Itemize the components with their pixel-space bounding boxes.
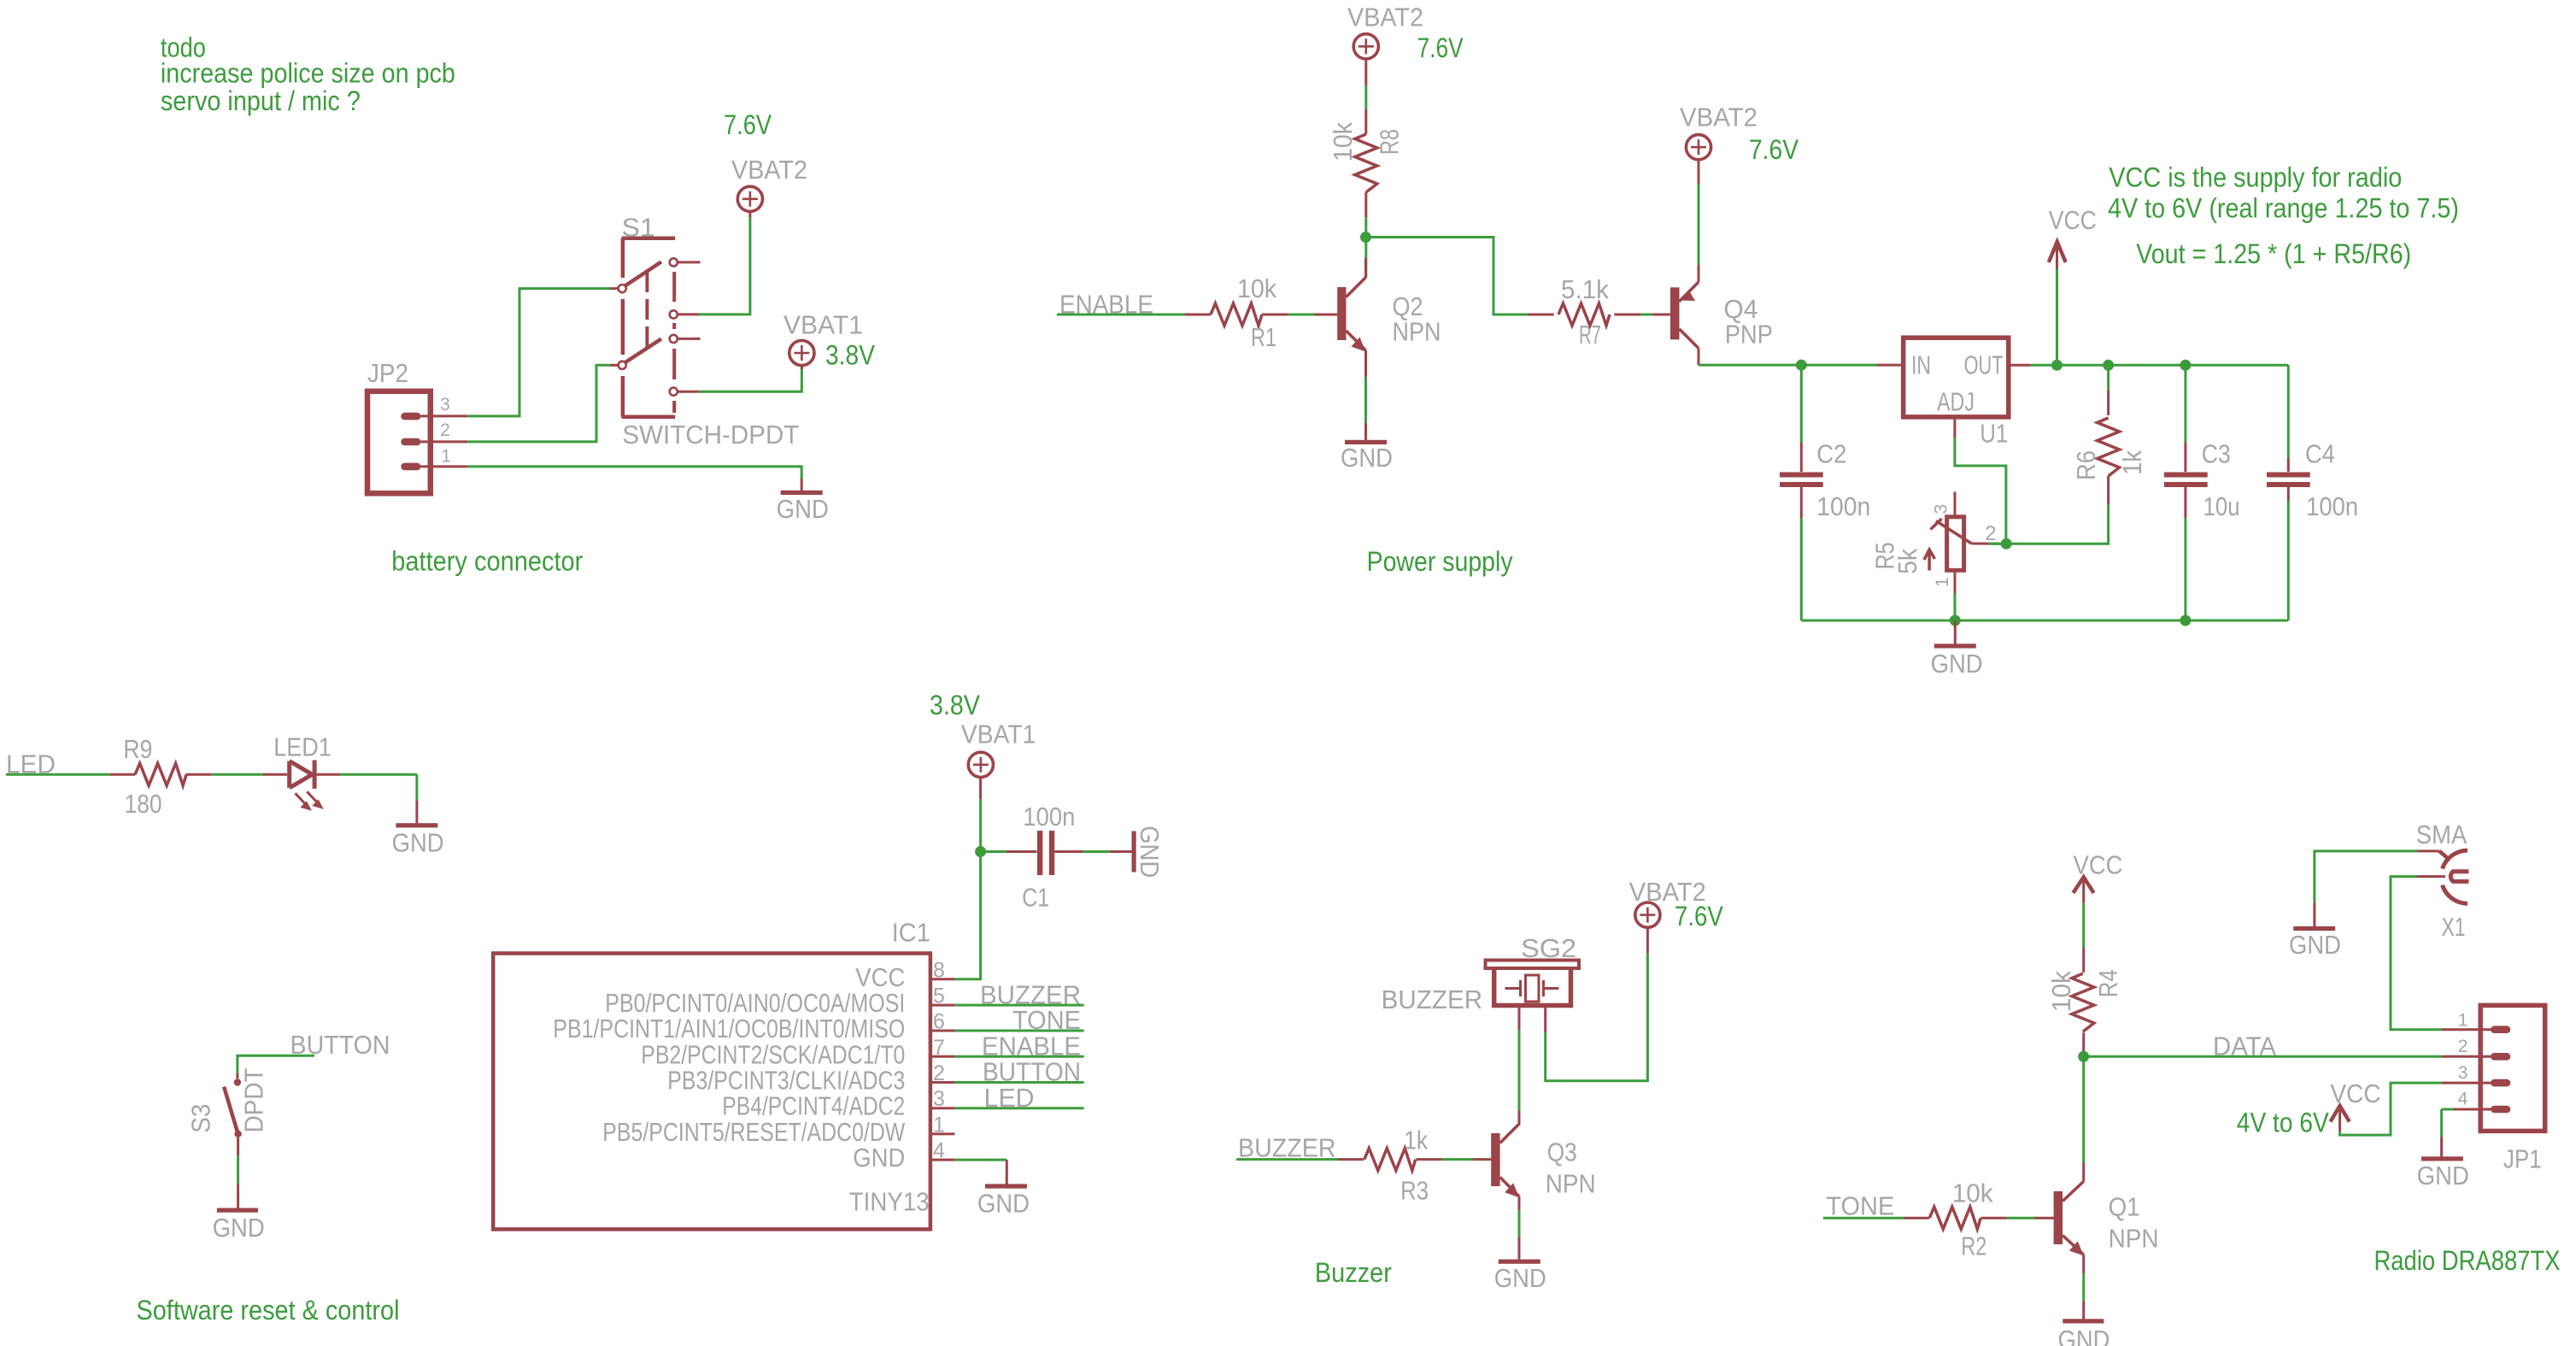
wire U1 ADJ to divider node xyxy=(1953,417,1956,438)
potentiometer R5 5k xyxy=(1947,517,1964,571)
svg-text:VBAT2: VBAT2 xyxy=(731,155,807,185)
ic IC1 body xyxy=(493,954,930,1230)
transistor Q4 PNP xyxy=(1670,287,1680,339)
wire R7 to Q4 base xyxy=(1640,314,1652,316)
capacitor C4 100n xyxy=(2287,365,2290,458)
wire node to VBAT1 xyxy=(979,799,982,851)
svg-text:VBAT2: VBAT2 xyxy=(1680,103,1757,132)
wire DATA node to Q1 collector xyxy=(2082,1056,2085,1162)
svg-text:3: 3 xyxy=(440,395,450,414)
resistor R6 1k xyxy=(2107,365,2110,391)
svg-text:Q3: Q3 xyxy=(1547,1137,1577,1167)
wire LED1 to GND xyxy=(340,773,417,776)
power symbol VBAT1 at IC1 xyxy=(968,752,993,777)
power symbol VBAT1 battery section xyxy=(789,340,814,365)
transistor Q2 NPN xyxy=(1337,287,1346,340)
buzzer SG2 body xyxy=(1486,961,1580,969)
wire LED net to R9 xyxy=(6,773,109,776)
switch S1 pole stubs xyxy=(610,287,619,290)
wire Q1 emitter to GND xyxy=(2082,1255,2085,1273)
ground symbol IC1 GND xyxy=(985,1184,1027,1188)
svg-text:100n: 100n xyxy=(1816,491,1870,521)
wire ENABLE to R1 xyxy=(1057,314,1185,316)
svg-text:NPN: NPN xyxy=(1546,1168,1596,1198)
ground symbol JP1 GND xyxy=(2421,1156,2463,1161)
switch S3 lever xyxy=(224,1087,238,1134)
wire Q3 emitter to GND xyxy=(1518,1196,1521,1210)
svg-text:battery connector: battery connector xyxy=(391,546,583,577)
switch S1 coupling dashed line xyxy=(645,272,648,350)
junction ADJ divider node xyxy=(2001,538,2012,550)
connector JP1 pads xyxy=(2491,1026,2510,1033)
svg-text:R9: R9 xyxy=(123,734,152,764)
svg-text:VCC: VCC xyxy=(2074,850,2123,880)
resistor R2 10k xyxy=(1904,1217,1929,1220)
svg-text:Buzzer: Buzzer xyxy=(1315,1257,1392,1288)
svg-text:C1: C1 xyxy=(1022,883,1049,913)
svg-text:C4: C4 xyxy=(2305,438,2335,468)
svg-text:S3: S3 xyxy=(186,1104,216,1133)
resistor R1 10k xyxy=(1185,314,1211,316)
wire DATA to JP1 pin2 xyxy=(2084,1055,2442,1058)
svg-text:7.6V: 7.6V xyxy=(1749,134,1799,165)
svg-text:7.6V: 7.6V xyxy=(1675,901,1724,932)
svg-text:5.1k: 5.1k xyxy=(1561,274,1609,304)
buzzer SG2 piezo element xyxy=(1526,975,1540,1002)
svg-text:JP2: JP2 xyxy=(367,358,408,388)
switch S1 pole contact 1 xyxy=(619,285,626,292)
svg-text:Vout = 1.25 * (1 + R5/R6): Vout = 1.25 * (1 + R5/R6) xyxy=(2136,238,2411,269)
svg-text:IC1: IC1 xyxy=(892,918,930,948)
svg-text:GND: GND xyxy=(1135,826,1165,878)
wire R8 to Q2 collector node xyxy=(1364,217,1367,278)
svg-text:GND: GND xyxy=(977,1189,1030,1219)
power symbol VBAT2 at buzzer xyxy=(1635,902,1660,927)
svg-text:1: 1 xyxy=(1933,577,1952,587)
svg-text:GND: GND xyxy=(2289,930,2341,960)
svg-text:R6: R6 xyxy=(2071,450,2101,480)
wire IC1 pin2 BUTTON xyxy=(955,1081,1084,1084)
svg-text:JP1: JP1 xyxy=(2503,1143,2542,1173)
wire IC1 pin6 TONE xyxy=(955,1030,1084,1032)
svg-text:10k: 10k xyxy=(1952,1178,1993,1208)
wire R3 to Q3 base xyxy=(1442,1158,1474,1161)
wire JP2 pin1 to GND xyxy=(467,467,801,479)
power symbol VBAT2 power supply xyxy=(1353,34,1378,59)
wire JP1 pin4 to GND xyxy=(2454,1108,2491,1111)
svg-text:10u: 10u xyxy=(2203,491,2240,521)
junction GND rail at R5 xyxy=(1950,615,1961,626)
svg-text:4V to 6V (real range 1.25 to 7: 4V to 6V (real range 1.25 to 7.5) xyxy=(2108,193,2459,224)
junction IN node C2 tap xyxy=(1796,360,1807,371)
svg-text:BUZZER: BUZZER xyxy=(1382,985,1483,1014)
ground symbol Q1 GND xyxy=(2063,1319,2104,1323)
antenna X1 center pin fork xyxy=(2450,872,2468,882)
svg-text:5k: 5k xyxy=(1892,548,1922,573)
svg-text:servo input / mic ?: servo input / mic ? xyxy=(161,85,361,116)
svg-text:3: 3 xyxy=(2458,1063,2468,1083)
wire S1 throw1b to VBAT2 xyxy=(699,215,750,314)
svg-text:TONE: TONE xyxy=(1826,1190,1894,1220)
svg-text:C2: C2 xyxy=(1816,439,1846,469)
svg-text:GND: GND xyxy=(392,827,444,857)
svg-text:Power supply: Power supply xyxy=(1367,546,1513,577)
svg-text:180: 180 xyxy=(125,789,162,819)
resistor R8 10k xyxy=(1364,109,1367,134)
resistor R3 1k xyxy=(1338,1158,1364,1161)
svg-text:U1: U1 xyxy=(1980,419,2008,449)
svg-text:2: 2 xyxy=(2458,1037,2468,1056)
svg-text:VCC: VCC xyxy=(2331,1079,2381,1108)
ground symbol C1 GND rotated xyxy=(1110,850,1132,853)
svg-text:VBAT1: VBAT1 xyxy=(783,310,863,340)
wire BUZZER to R3 xyxy=(1236,1158,1338,1161)
svg-text:VBAT2: VBAT2 xyxy=(1347,3,1423,32)
svg-text:4: 4 xyxy=(2458,1090,2468,1109)
switch S1 pole contact 2 xyxy=(619,361,626,369)
wire IC1 pin7 ENABLE xyxy=(955,1055,1084,1058)
svg-text:X1: X1 xyxy=(2442,912,2466,942)
svg-text:PNP: PNP xyxy=(1725,320,1773,350)
svg-text:GND: GND xyxy=(2058,1325,2110,1346)
svg-text:DPDT: DPDT xyxy=(238,1067,268,1132)
connector JP2 pads xyxy=(401,413,420,420)
svg-text:R1: R1 xyxy=(1251,322,1276,352)
svg-text:R3: R3 xyxy=(1400,1176,1429,1206)
svg-text:7.6V: 7.6V xyxy=(724,109,772,140)
wire R4 to DATA node xyxy=(2082,1051,2085,1056)
ic IC1 pin stubs xyxy=(930,978,955,980)
wire VCC to JP1 pin3 xyxy=(2340,1083,2442,1135)
wire SG2 right pin to VBAT2 xyxy=(1544,1006,1546,1032)
wire U1 OUT to VCC node xyxy=(2009,364,2031,367)
antenna X1 SMA outer shield arc xyxy=(2439,851,2450,861)
ground symbol power GND xyxy=(1954,620,1957,644)
wire IC1 pin8 VCC riser xyxy=(955,852,981,979)
wire R5 wiper to divider node xyxy=(1988,543,2006,545)
svg-text:LED: LED xyxy=(984,1083,1035,1113)
regulator U1 body xyxy=(1904,338,2009,417)
transistor Q3 NPN xyxy=(1491,1133,1499,1186)
svg-text:R2: R2 xyxy=(1961,1231,1986,1261)
junction VCC riser xyxy=(2051,360,2063,371)
junction Q2 collector node xyxy=(1360,232,1371,243)
wire R1 to Q2 base xyxy=(1288,314,1315,316)
switch S3 contacts xyxy=(234,1079,241,1085)
svg-text:VCC is the supply for radio: VCC is the supply for radio xyxy=(2109,162,2402,193)
wire JP2 pin3 to S1 pole1 xyxy=(467,289,610,416)
supply arrow VCC xyxy=(2056,269,2058,365)
svg-text:DATA: DATA xyxy=(2213,1031,2276,1061)
switch S1 bracket outline xyxy=(622,238,676,417)
switch S1 throw contacts xyxy=(670,258,678,266)
switch S1 throw stubs xyxy=(678,261,701,263)
wire IC1 pin4 to GND xyxy=(955,1159,1007,1161)
svg-text:NPN: NPN xyxy=(2109,1224,2159,1254)
svg-text:VBAT1: VBAT1 xyxy=(961,719,1036,749)
svg-text:SMA: SMA xyxy=(2416,820,2467,849)
svg-text:C3: C3 xyxy=(2202,438,2231,468)
wire Q2 emitter to GND xyxy=(1364,350,1367,377)
wire SG2 left pin to Q3 collector xyxy=(1518,1006,1521,1031)
wire R5 pin1 to GND rail xyxy=(1954,593,1957,620)
svg-text:7.6V: 7.6V xyxy=(1417,32,1464,63)
svg-text:increase police size on pcb: increase police size on pcb xyxy=(161,58,455,89)
wire IC1 pin5 BUZZER xyxy=(955,1004,1084,1007)
svg-text:10k: 10k xyxy=(2046,971,2076,1012)
transistor Q1 NPN xyxy=(2054,1191,2063,1244)
svg-text:VCC: VCC xyxy=(2049,205,2097,235)
svg-text:R8: R8 xyxy=(1375,129,1405,155)
ground symbol Q2 GND xyxy=(1345,440,1387,444)
resistor R9 180 xyxy=(109,773,135,776)
ground symbol battery GND xyxy=(801,479,803,491)
capacitor C2 100n xyxy=(1800,365,1803,442)
svg-text:R7: R7 xyxy=(1579,320,1601,350)
svg-text:SG2: SG2 xyxy=(1521,933,1576,963)
wire SMA shield to GND xyxy=(2315,851,2417,902)
wire JP2 pin2 to S1 pole2 xyxy=(467,365,610,442)
junction DATA node xyxy=(2078,1051,2089,1062)
junction VBAT1 C1 node xyxy=(975,846,986,857)
svg-text:3.8V: 3.8V xyxy=(930,690,981,720)
wire GND rail bottom xyxy=(1801,620,2288,622)
wire SMA center pin to JP1 pin1 xyxy=(2417,875,2445,878)
svg-text:ADJ: ADJ xyxy=(1937,387,1975,417)
switch S1 lever 2 xyxy=(625,339,662,363)
ground symbol LED GND xyxy=(415,800,418,823)
wire R9 to LED1 xyxy=(212,773,263,776)
junction GND rail at C3 xyxy=(2180,615,2191,626)
svg-text:Software reset & control: Software reset & control xyxy=(137,1295,400,1325)
resistor R4 10k xyxy=(2082,947,2085,973)
svg-text:Radio DRA887TX: Radio DRA887TX xyxy=(2374,1245,2561,1276)
wire S1 throw2b to VBAT1 xyxy=(699,368,801,392)
svg-text:GND: GND xyxy=(853,1143,905,1173)
svg-text:GND: GND xyxy=(1931,649,1983,679)
connector JP2 pin stubs xyxy=(421,414,468,417)
svg-text:NPN: NPN xyxy=(1393,316,1441,346)
svg-text:10k: 10k xyxy=(1237,273,1276,303)
wire R6 bottom to divider node xyxy=(2006,504,2108,544)
svg-text:1: 1 xyxy=(441,446,451,466)
wire VBAT2 to R8 xyxy=(1364,85,1367,109)
svg-text:100n: 100n xyxy=(2306,491,2358,521)
diode LED1 xyxy=(290,761,313,788)
svg-text:10k: 10k xyxy=(1328,122,1358,162)
svg-text:GND: GND xyxy=(777,494,829,524)
wire R2 to Q1 base xyxy=(2007,1217,2035,1220)
ground symbol SMA GND xyxy=(2293,926,2335,931)
junction C3 top xyxy=(2180,360,2191,371)
junction R6 top xyxy=(2103,360,2114,371)
wire S3 to GND xyxy=(237,1137,239,1155)
svg-text:1: 1 xyxy=(2458,1010,2468,1030)
svg-text:3: 3 xyxy=(1931,504,1951,514)
svg-text:LED1: LED1 xyxy=(273,732,332,762)
wire collector node to R7 xyxy=(1366,238,1529,315)
svg-text:2: 2 xyxy=(1985,522,1996,545)
svg-text:100n: 100n xyxy=(1023,802,1075,832)
wire BUTTON to S3 xyxy=(238,1055,314,1073)
switch S1 lever 1 xyxy=(625,262,662,285)
svg-text:GND: GND xyxy=(1341,443,1393,473)
svg-text:S1: S1 xyxy=(622,213,655,243)
wire VBAT2 to Q4 emitter xyxy=(1698,184,1700,265)
ground symbol S3 GND xyxy=(217,1208,258,1213)
svg-text:R4: R4 xyxy=(2093,969,2123,997)
ground symbol Q3 GND xyxy=(1499,1260,1540,1264)
wire TONE to R2 xyxy=(1823,1217,1904,1220)
capacitor C1 100n xyxy=(981,850,1006,853)
svg-text:2: 2 xyxy=(440,420,450,440)
wire Q4 collector to U1 IN xyxy=(1699,364,1877,367)
svg-text:GND: GND xyxy=(1494,1263,1546,1293)
resistor R7 5.1k xyxy=(1528,314,1554,316)
power symbol VBAT2 battery section xyxy=(737,186,762,211)
capacitor C3 10u xyxy=(2184,365,2186,442)
svg-text:SWITCH-DPDT: SWITCH-DPDT xyxy=(622,420,799,450)
svg-text:GND: GND xyxy=(213,1213,265,1243)
svg-text:Q1: Q1 xyxy=(2109,1191,2140,1221)
diode LED1 emission arrows xyxy=(296,793,308,806)
svg-text:1k: 1k xyxy=(2117,450,2147,475)
svg-text:OUT: OUT xyxy=(1964,350,2004,380)
wire IC1 pin3 LED xyxy=(955,1107,1084,1109)
switch S1 right dashed line xyxy=(672,272,676,413)
svg-text:1k: 1k xyxy=(1404,1125,1428,1155)
connector JP2 body xyxy=(367,391,431,494)
svg-text:GND: GND xyxy=(2417,1161,2469,1190)
svg-text:IN: IN xyxy=(1911,350,1931,380)
wire C1 to GND xyxy=(1083,850,1110,853)
svg-text:4V to 6V: 4V to 6V xyxy=(2237,1107,2330,1137)
connector JP1 body xyxy=(2480,1005,2545,1131)
svg-text:TINY13: TINY13 xyxy=(849,1187,930,1217)
svg-text:3.8V: 3.8V xyxy=(825,340,876,371)
power symbol VBAT2 at Q4 xyxy=(1686,135,1710,160)
